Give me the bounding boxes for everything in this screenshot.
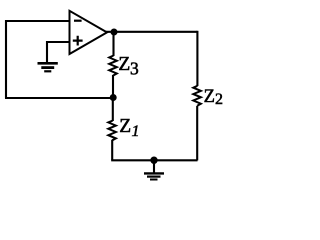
svg-text:Z: Z bbox=[119, 116, 131, 137]
wire minus-input top bbox=[5, 20, 70, 22]
wire Z3 to node B bbox=[112, 75, 114, 98]
ground G1 (non-inverting input) bbox=[38, 63, 58, 71]
wire right vertical top bbox=[196, 31, 198, 86]
impedance Z3 bbox=[109, 56, 117, 76]
node C (ground node) bbox=[150, 157, 157, 164]
wire plus-input vertical drop bbox=[46, 41, 48, 63]
impedance Z2 bbox=[193, 86, 201, 106]
ground G2 bbox=[144, 173, 164, 179]
ground G2 stem bbox=[153, 160, 155, 172]
node A (op-amp output) bbox=[111, 29, 118, 36]
svg-text:3: 3 bbox=[130, 59, 139, 79]
impedance Z1 bbox=[108, 121, 116, 141]
svg-text:1: 1 bbox=[132, 123, 140, 140]
op-amp plus sign bbox=[73, 36, 83, 46]
wire node B down to Z1 bbox=[112, 98, 114, 122]
wire Z1 to bottom rail bbox=[111, 140, 113, 161]
op-amp minus sign bbox=[74, 20, 82, 22]
op-amp U1 bbox=[70, 11, 108, 54]
svg-text:Z: Z bbox=[204, 87, 215, 107]
svg-text:Z: Z bbox=[118, 54, 130, 75]
wire feedback bottom horizontal bbox=[5, 97, 113, 99]
wire left vertical bbox=[5, 20, 7, 98]
svg-text:2: 2 bbox=[215, 91, 223, 108]
wire output bbox=[106, 31, 197, 33]
wire output node down to Z3 bbox=[112, 32, 114, 56]
node B (feedback junction) bbox=[110, 94, 117, 101]
wire right vertical bottom bbox=[196, 106, 198, 161]
wire bottom rail bbox=[111, 159, 197, 161]
wire plus-input bbox=[46, 41, 70, 43]
